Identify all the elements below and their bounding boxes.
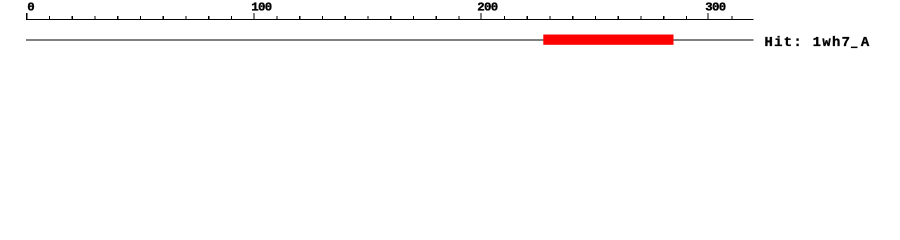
svg-text:0: 0	[27, 1, 34, 15]
svg-text:200: 200	[477, 1, 497, 15]
svg-text:100: 100	[251, 1, 271, 15]
svg-text:300: 300	[705, 1, 725, 15]
svg-text:Hit: 1wh7 A: Hit: 1wh7 A	[765, 35, 871, 51]
